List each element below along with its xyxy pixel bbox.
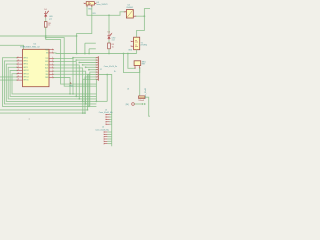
svg-text:SD0: SD0 [45,74,48,76]
wire U3 gnd2 down [77,6,92,53]
wire stub A [85,42,96,44]
U2 right pin 6 [49,67,53,69]
wire J4 pin 4 stub [107,138,111,140]
wire J3 pin 3 stub [110,118,112,120]
wire J3 pin 1 stub [110,114,112,116]
resistor R9 [108,43,111,49]
IC U4 [126,10,133,18]
U2 right pin 3 [49,58,53,60]
crystal Y1 [134,37,140,50]
U2 left pin 1 [17,57,23,59]
wire to J2 pin4 [83,64,97,66]
wire to J2 pin3 [79,62,96,64]
svg-text:J4: J4 [102,127,104,129]
J3 pin 1 [106,114,110,116]
J2 pin 5 [96,66,98,68]
svg-text:GPIO0: GPIO0 [23,57,28,59]
wire U2 rpin6 down [53,68,82,102]
svg-text:(TX/RX): (TX/RX) [141,45,148,47]
wire U2 lpin3 bundle [6,64,96,101]
svg-text:500mA: 500mA [138,99,144,102]
wire U2 rpin4 down [53,62,76,97]
wire U3 to U4 [87,6,125,15]
Y1 pin2 [131,45,133,47]
wire rail B [46,38,97,87]
svg-text:GPIO14: GPIO14 [23,77,29,79]
wire U2 rpin9 down [53,78,70,94]
wire U2 lpin8 off-page [0,79,17,81]
wire to J2 pin2 [76,59,96,61]
J3 pin 3 [106,118,110,120]
wire J3 pin 4 stub [110,121,112,123]
wire U2 lpin5 bundle [10,71,96,97]
wire vert x107 [106,75,108,102]
svg-text:GPIO4: GPIO4 [23,64,28,66]
U2 left pin 4 [17,66,23,68]
wire U2 lpin1 bundle [3,58,97,107]
J2 pin 8 [96,74,98,76]
wire U2 lpin2 bundle [4,61,96,104]
U4 pin right [133,15,135,17]
U2 left pin 2 [17,60,23,62]
wire U2 rpin3 down [53,59,73,94]
wire U2 rpin7 down [53,71,85,104]
wire J4 pin 3 stub [107,136,111,138]
power flag GND [70,83,72,85]
J2 pin 10 [96,78,98,80]
wire M1 to J6 [134,103,142,105]
wire U4 to Y1 [137,16,145,37]
svg-text:Conn_01x10_Fe: Conn_01x10_Fe [104,66,117,68]
wire J4 pin 5 stub [107,140,111,142]
svg-text:1k: 1k [48,25,50,27]
U3 pin gnd1 [86,5,88,6]
svg-text:GPIO12: GPIO12 [23,70,29,72]
wire SW1 pin2 net [124,54,140,73]
wire bundle low2 [0,109,88,111]
svg-text:grn: grn [49,19,52,21]
wire J2 pin10 south [95,79,97,101]
U3 pin out [94,2,95,4]
J3 pin 5 [106,123,110,125]
wire U2 rpin8 down [53,74,89,106]
U2 left pin 6 [17,73,23,75]
J4 pin 4 [104,138,107,140]
wire D4 to R8 [45,18,47,22]
terminal J6 pins [142,103,146,105]
wire SW1 pin2 down [139,68,141,97]
wire vert B [88,49,90,54]
wire U2 lpin7 off-page [0,76,17,78]
svg-text:Conn_01x05_Ma: Conn_01x05_Ma [99,112,113,114]
wire to D5 [108,15,110,33]
wire rail C [46,40,97,85]
wire bundle low3 [0,112,85,114]
svg-text:IO16: IO16 [45,65,48,67]
J2 pin 7 [96,71,98,73]
wire to J2 pin6 [89,69,97,71]
wire R9 to net [108,49,110,54]
U2 left pin 5 [17,70,23,72]
IC U2 [23,49,50,86]
svg-text:R+: R+ [114,71,116,73]
wire to J2 pin5 [86,66,97,68]
speck [29,118,30,119]
J2 pin 2 [96,59,98,61]
wire J2 pin8 down [88,75,97,110]
J4 pin 6 [104,143,107,145]
svg-text:J2: J2 [100,69,102,71]
svg-text:[M]: [M] [126,104,129,106]
J2 pin 6 [96,69,98,71]
SW1 pin1 [134,66,136,69]
connector J2 [97,56,99,80]
wire J2 east bus [98,75,111,147]
U2 right pin 1 [49,49,53,51]
wire J2 pin10 down [83,79,97,113]
svg-text:Conn_01x06_Ma: Conn_01x06_Ma [95,129,109,131]
wire SW1 pin1 net [128,54,135,69]
U3 pin in [84,2,86,4]
U2 right pin 5 [49,64,53,66]
svg-text:CLK: CLK [45,71,48,73]
J2 pin 9 [96,76,98,78]
wire vert A [84,43,86,53]
U3 pin gnd2 [91,5,93,6]
wire J3 pin 5 stub [110,123,112,125]
wire Y1 bottom to net [136,50,138,54]
svg-text:1k: 1k [112,46,114,48]
U4 pin left [125,11,127,13]
svg-text:GPIO15: GPIO15 [23,80,29,82]
svg-text:GPIO13: GPIO13 [23,73,29,75]
U2 right pin 8 [49,73,53,75]
svg-text:ESP8266EX_SMD_U2: ESP8266EX_SMD_U2 [20,46,39,48]
svg-text:J6: J6 [127,89,129,91]
U2 left pin 8 [17,79,23,81]
svg-text:RST: RST [45,49,48,51]
wire J2 pin7 down [90,72,97,106]
wire U2 lpin4 bundle [8,67,96,99]
resistor R8 [44,22,47,28]
svg-text:EN: EN [46,53,48,55]
wire F1 right down [145,97,150,116]
J4 pin 2 [104,133,107,135]
U2 right pin 4 [49,61,53,63]
SW1 pin2 [139,66,141,69]
wire J4 pin 1 stub [107,131,111,133]
J4 pin 1 [104,131,107,133]
J2 pin 4 [96,64,98,66]
wire J3 pin 2 stub [110,116,112,118]
wire U2 rpin5 down [53,65,79,99]
wire rail A [0,35,77,37]
svg-text:GPIO5: GPIO5 [23,67,28,69]
motor M1 [132,103,135,106]
svg-text:CH340C: CH340C [126,7,134,9]
Y1 pin1 [131,40,133,42]
switch SW1 [134,61,141,66]
J3 pin 2 [106,116,110,118]
svg-text:red: red [112,40,115,42]
led D4 [44,11,49,18]
wire to J2 pin1 [73,57,96,59]
U2 left pin 3 [17,63,23,65]
wire D5 to R9 [108,40,110,43]
wire EN net y53.5 [53,52,136,55]
fuse F1 [139,96,145,99]
svg-text:3V3: 3V3 [92,13,95,15]
J4 pin 3 [104,136,107,138]
wire U2 lpin6 bundle [12,74,96,94]
regulator U3 [86,2,94,5]
wire U4 out top [136,9,151,17]
wire stub B [89,48,96,50]
svg-text:Conn_01x02: Conn_01x02 [145,88,147,99]
led D5 [107,33,112,40]
wire J4 pin 2 stub [107,133,111,135]
U2 right pin 7 [49,70,53,72]
wire R8 to net [45,27,47,39]
J3 pin 4 [106,121,110,123]
wire y101 link [96,100,107,102]
wire J2 pin9 down [85,77,96,113]
U2 right pin 9 [49,77,53,79]
svg-text:GPIO2: GPIO2 [23,61,28,63]
U2 left pin 7 [17,76,23,78]
J2 pin 3 [96,62,98,64]
svg-text:krtva_5V/3V3: krtva_5V/3V3 [97,3,108,6]
J2 pin 1 [96,57,98,59]
U2 right pin 2 [49,52,53,54]
J4 pin 5 [104,140,107,142]
wire to U2 top pin [0,45,24,49]
wire J4 pin 6 stub [107,143,111,145]
svg-text:J3: J3 [105,109,107,111]
